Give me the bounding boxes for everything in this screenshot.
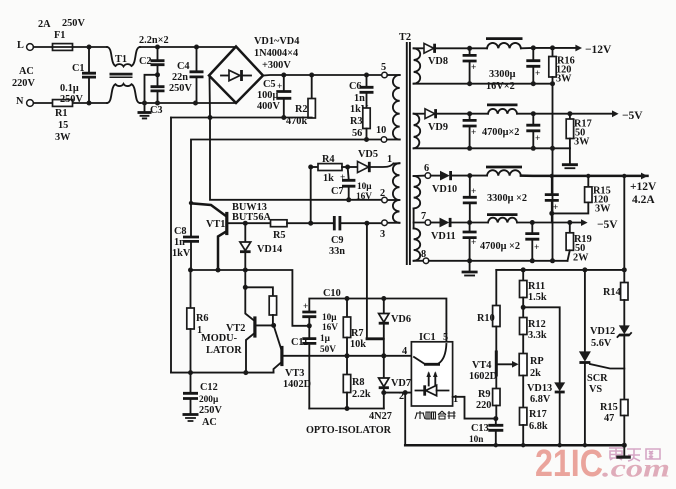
node R19 top: [567, 220, 572, 225]
svg-text:56: 56: [352, 128, 362, 139]
capacitor C9: [311, 222, 333, 224]
node ground stub on N rail: [142, 101, 147, 106]
svg-text:4N27: 4N27: [369, 411, 392, 422]
opto phototransistor: [424, 363, 440, 366]
node R17a top: [567, 111, 572, 116]
svg-text:250V: 250V: [62, 18, 85, 29]
node C9 right / down wire: [364, 221, 369, 226]
svg-text:AC: AC: [19, 66, 34, 77]
wire pin2: [384, 392, 412, 394]
capacitor Cd1: [469, 223, 471, 232]
svg-text:220: 220: [476, 400, 491, 411]
svg-text:VD7: VD7: [391, 378, 411, 389]
resistor R7: [346, 299, 348, 318]
svg-text:R12: R12: [528, 319, 546, 330]
arrow -5Vb: [581, 219, 588, 226]
resistor R1: [53, 100, 73, 107]
transistor VT1 BUW13/BUT56A: [191, 203, 226, 216]
transistor VT4 1602D: [495, 352, 498, 375]
svg-text:15: 15: [58, 120, 68, 131]
svg-text:C12: C12: [200, 382, 218, 393]
resistor R16: [552, 48, 554, 57]
svg-text:+: +: [535, 134, 540, 144]
svg-text:220V: 220V: [12, 78, 35, 89]
node -12V cap2: [531, 45, 536, 50]
svg-text:VT4: VT4: [472, 360, 491, 371]
wire control bottom rail: [405, 444, 624, 447]
svg-text:RP: RP: [530, 356, 544, 367]
svg-text:16V×2: 16V×2: [486, 81, 515, 92]
svg-text:T2: T2: [399, 32, 411, 43]
wire bridge negative down to pin2 line: [210, 77, 382, 200]
svg-text:8: 8: [421, 249, 426, 260]
ground input filter: [138, 111, 152, 114]
resistor R5: [271, 220, 288, 227]
transformer T1 core: [110, 73, 133, 76]
svg-text:3300μ: 3300μ: [489, 69, 516, 80]
inductor L3: [487, 170, 521, 175]
wire -12V line to choke: [470, 47, 487, 49]
svg-text:1μ: 1μ: [320, 334, 331, 344]
svg-text:BUT56A: BUT56A: [232, 212, 271, 223]
ground C12: [183, 413, 199, 416]
inductor L2 core bar: [487, 104, 518, 107]
svg-text:C3: C3: [150, 105, 163, 116]
svg-text:VD6: VD6: [391, 314, 411, 325]
capacitor C5: [283, 75, 285, 91]
transformer T2 core: [407, 43, 410, 264]
node VT1 collector: [189, 201, 193, 205]
bridge rectifier VD1-VD4: [209, 47, 263, 104]
resistor R15 (47): [621, 400, 628, 416]
svg-text:MODU-: MODU-: [201, 333, 238, 344]
svg-text:2.2n×2: 2.2n×2: [139, 35, 169, 46]
svg-text:4.2A: 4.2A: [632, 194, 655, 206]
node C12 top: [188, 370, 193, 375]
wire C9 node down to VD6/VD7: [366, 223, 368, 339]
wire pin1 to R9 bottom: [453, 397, 496, 419]
terminal pin 3: [387, 222, 399, 224]
node VT1 emitter rail: [216, 268, 221, 273]
svg-text:VT1: VT1: [206, 219, 225, 230]
svg-text:2: 2: [399, 391, 404, 402]
node C3 bottom: [155, 101, 160, 106]
svg-text:+: +: [471, 187, 476, 197]
T2 secondary winding C: [414, 176, 421, 208]
svg-text:VD12: VD12: [590, 326, 615, 337]
wire R11 node to VD13 column: [523, 307, 560, 382]
svg-text:4700μ×2: 4700μ×2: [482, 127, 519, 138]
node C10/C11: [307, 323, 312, 328]
svg-text:R1: R1: [55, 108, 68, 119]
node R16 top: [550, 45, 555, 50]
resistor R14: [621, 283, 628, 301]
node VT2 emitter rail: [243, 370, 248, 375]
node -5Va cap1: [467, 111, 472, 116]
svg-text:VD11: VD11: [431, 231, 456, 242]
svg-text:AC: AC: [202, 417, 217, 428]
svg-text:LATOR: LATOR: [206, 345, 242, 356]
resistor R4: [311, 166, 318, 168]
node VT2 collector top: [243, 285, 248, 290]
T2 secondary winding A: [414, 48, 421, 83]
terminal L: [27, 44, 34, 51]
resistor R3: [363, 108, 370, 129]
transformer T1 top winding: [107, 47, 140, 66]
node R11/R12: [521, 305, 526, 310]
svg-text:6.8k: 6.8k: [529, 421, 548, 432]
resistor R2: [311, 75, 313, 99]
svg-text:C6: C6: [349, 81, 362, 92]
node C2-C3 midpoint: [155, 72, 160, 77]
terminal N: [27, 100, 34, 107]
wire long left vertical: [170, 118, 172, 373]
inductor L3 core bar: [486, 166, 522, 169]
inductor L1: [487, 43, 521, 48]
diode VD14: [244, 223, 246, 242]
terminal pin 2: [387, 199, 399, 201]
svg-text:R8: R8: [352, 377, 365, 388]
svg-text:47: 47: [604, 413, 614, 424]
capacitor C2: [157, 47, 159, 60]
svg-text:T1: T1: [115, 54, 127, 65]
svg-text:C1: C1: [72, 63, 85, 74]
node neg-bridge vertical: [208, 115, 213, 120]
wire R16 column down: [552, 84, 554, 261]
node R7/R8 base wire: [345, 353, 350, 358]
diode VD5: [348, 166, 358, 168]
node R3 bottom: [364, 137, 369, 142]
svg-text:R15: R15: [600, 402, 618, 413]
svg-text:10μ: 10μ: [322, 313, 337, 323]
svg-text:21IC: 21IC: [535, 443, 603, 485]
T2 secondary winding D: [414, 228, 421, 260]
capacitor C12: [190, 373, 192, 393]
node X R4/R5/C9: [308, 221, 313, 226]
fuse F1: [53, 44, 73, 51]
svg-text:R3: R3: [350, 116, 363, 127]
svg-text:3300μ ×2: 3300μ ×2: [487, 193, 527, 204]
wire -12V return: [470, 83, 553, 85]
terminal pin 6: [425, 173, 431, 179]
wire +300V rail to T2 pin5: [263, 74, 382, 77]
node R4/VD5/C7: [345, 165, 350, 170]
terminal pin 7: [425, 220, 431, 226]
svg-text:R10: R10: [477, 313, 495, 324]
svg-text:VD10: VD10: [432, 184, 457, 195]
resistor (unlabeled collector load): [269, 296, 276, 315]
svg-text:C7: C7: [331, 186, 344, 197]
node top junction C1: [87, 45, 92, 50]
svg-text:3.3k: 3.3k: [528, 330, 547, 341]
capacitor C3: [157, 75, 159, 86]
svg-text:R5: R5: [273, 230, 286, 241]
arrow -12V: [575, 45, 582, 52]
svg-text:22n: 22n: [172, 72, 188, 83]
svg-text:2.2k: 2.2k: [352, 389, 371, 400]
diode VD10: [431, 175, 440, 177]
node R2 top: [309, 73, 314, 78]
svg-text:50V: 50V: [320, 345, 336, 355]
svg-text:3W: 3W: [595, 204, 611, 215]
node -5Va cap2: [531, 111, 536, 116]
svg-text:R7: R7: [351, 328, 364, 339]
transistor VT3 1402D: [274, 325, 281, 348]
svg-text:1: 1: [387, 154, 392, 165]
arrow +12V: [641, 173, 648, 180]
resistor R12: [522, 307, 524, 317]
svg-text:+12V: +12V: [630, 181, 657, 193]
svg-text:R17: R17: [529, 409, 547, 420]
svg-text:+: +: [534, 243, 539, 253]
wire node X vertical: [310, 167, 312, 223]
node VD14 top: [243, 221, 248, 226]
wire T2 pin10 to VT1 collector: [191, 140, 381, 203]
node R9/C13: [493, 416, 498, 421]
svg-text:250V: 250V: [199, 405, 222, 416]
resistor R17 (6.8k): [520, 408, 527, 426]
svg-text:VD1~VD4: VD1~VD4: [254, 36, 299, 47]
capacitor Cc1: [469, 176, 471, 197]
terminal pin 8: [423, 258, 429, 264]
resistor R8: [346, 356, 348, 375]
potentiometer RP: [519, 354, 527, 376]
svg-text:−12V: −12V: [585, 44, 612, 56]
svg-text:2A: 2A: [38, 19, 51, 30]
svg-text:10μ: 10μ: [357, 182, 372, 192]
capacitor C7: [348, 167, 349, 179]
svg-text:5: 5: [381, 62, 386, 73]
capacitor Ca1: [469, 48, 471, 54]
svg-text:C10: C10: [323, 288, 341, 299]
svg-text:3: 3: [380, 229, 385, 240]
svg-text:4700μ ×2: 4700μ ×2: [480, 241, 520, 252]
svg-text:VD8: VD8: [428, 56, 448, 67]
opto LED: [423, 385, 426, 395]
svg-text:.com: .com: [602, 456, 670, 483]
T2 drive winding 1-2-3: [394, 162, 400, 164]
svg-text:R14: R14: [603, 287, 621, 298]
svg-text:0.1μ: 0.1μ: [60, 83, 79, 94]
svg-text:+: +: [471, 128, 476, 138]
capacitor C4: [196, 47, 198, 71]
svg-text:16V: 16V: [322, 323, 338, 333]
diode VD8: [424, 43, 434, 53]
thyristor SCR VS: [584, 270, 586, 352]
node VD6 top: [381, 296, 386, 301]
svg-text:10k: 10k: [350, 339, 366, 350]
inductor L4 core bar: [487, 213, 518, 216]
svg-text:2k: 2k: [530, 368, 541, 379]
ground control rail: [623, 445, 625, 455]
resistor R9: [493, 389, 500, 406]
svg-text:2: 2: [380, 188, 385, 199]
svg-text:1.5k: 1.5k: [528, 292, 547, 303]
wire +12V feedback drop: [623, 176, 625, 283]
wire bridge negative rail: [171, 117, 312, 119]
node -5Vb cap1: [467, 220, 472, 225]
wire to collector resistor: [245, 287, 273, 296]
nodes on return rail: [467, 146, 472, 151]
svg-text:1n: 1n: [354, 93, 365, 104]
wire feedback rail: [496, 269, 624, 271]
node VD7 pin2 wire: [381, 390, 386, 395]
wire N rail: [34, 102, 108, 104]
svg-text:C2: C2: [139, 56, 152, 67]
svg-text:N: N: [16, 96, 24, 107]
opto light arrows: [429, 374, 436, 386]
svg-text:+: +: [535, 69, 540, 79]
wire C10 top rail: [309, 299, 446, 342]
wire L to bridge top: [34, 46, 108, 48]
svg-text:VD5: VD5: [358, 149, 378, 160]
capacitor C6: [366, 75, 368, 86]
node C2 top: [155, 45, 160, 50]
capacitor Cd2: [531, 223, 533, 233]
resistor R11: [522, 270, 524, 281]
svg-text:+: +: [340, 173, 345, 183]
svg-text:VD13: VD13: [527, 383, 552, 394]
node VT2 base / VT3 collector: [271, 323, 276, 328]
node C4 bottom: [193, 101, 198, 106]
svg-text:SCR: SCR: [587, 373, 608, 384]
svg-text:C8: C8: [174, 226, 187, 237]
svg-text:5.6V: 5.6V: [591, 338, 612, 349]
SECTION: WATERMARK: [535, 443, 670, 485]
wire opto bottom rail: [309, 408, 384, 410]
svg-text:−5V: −5V: [622, 110, 643, 122]
svg-text:5: 5: [443, 332, 448, 343]
svg-text:6.8V: 6.8V: [530, 394, 551, 405]
svg-text:200μ: 200μ: [199, 395, 219, 405]
svg-text:+: +: [303, 302, 308, 312]
node VD6/VD7 base wire: [381, 353, 386, 358]
svg-text:3W: 3W: [556, 74, 572, 85]
resistor R10: [495, 270, 497, 306]
svg-text:VS: VS: [589, 384, 602, 395]
svg-text:IC1: IC1: [419, 332, 436, 343]
svg-text:C5: C5: [263, 79, 276, 90]
svg-text:3W: 3W: [574, 137, 590, 148]
svg-text:1402D: 1402D: [283, 379, 311, 390]
svg-text:4: 4: [402, 346, 407, 357]
wire midpoint to ground: [145, 75, 158, 112]
svg-text:100μ: 100μ: [257, 90, 278, 101]
svg-text:250V: 250V: [60, 94, 83, 105]
node R7 top: [345, 296, 350, 301]
svg-text:16V: 16V: [356, 192, 372, 202]
svg-text:−5V: −5V: [597, 219, 618, 231]
svg-text:7: 7: [421, 211, 426, 222]
resistor R17 (50 3W): [569, 114, 571, 119]
terminal pin 10: [381, 137, 387, 143]
svg-text:L: L: [17, 40, 24, 51]
node C7 bottom: [346, 197, 351, 202]
svg-text:2W: 2W: [573, 253, 589, 264]
node neg-C5: [281, 115, 286, 120]
svg-text:3W: 3W: [55, 132, 71, 143]
svg-text:C4: C4: [177, 61, 190, 72]
svg-text:+: +: [471, 238, 476, 248]
svg-text:VD9: VD9: [428, 122, 448, 133]
arrow -5Va: [612, 110, 619, 117]
node C4 top: [194, 45, 199, 50]
label opto chinese: [415, 411, 456, 419]
ground secondary bottom: [469, 261, 471, 271]
svg-text:R6: R6: [196, 313, 209, 324]
diode VD6: [383, 299, 385, 314]
svg-text:VD14: VD14: [257, 244, 282, 255]
diode VD12 zener: [619, 325, 630, 334]
diode VD13: [554, 382, 565, 391]
node +12V feedback drop: [622, 174, 626, 178]
svg-text:400V: 400V: [257, 101, 280, 112]
wire bottom primary rail: [171, 372, 274, 374]
terminal pin 5: [382, 72, 388, 78]
svg-text:R11: R11: [528, 281, 545, 292]
svg-text:1602D: 1602D: [469, 371, 497, 382]
resistor R6: [190, 270, 192, 308]
transistor VT2: [245, 287, 254, 320]
capacitor C8: [190, 203, 192, 236]
svg-text:1kV: 1kV: [172, 248, 191, 259]
svg-text:VT3: VT3: [285, 368, 304, 379]
svg-text:+300V: +300V: [262, 60, 291, 71]
node R15 top: [586, 174, 590, 178]
diode VD7: [379, 378, 389, 387]
svg-text:6: 6: [424, 163, 429, 174]
node bottom junction C1: [87, 101, 92, 106]
inductor L1 core bar: [486, 37, 523, 40]
svg-text:C9: C9: [331, 235, 344, 246]
svg-text:R9: R9: [478, 389, 491, 400]
inductor L4: [488, 218, 517, 223]
node R8 bottom: [345, 406, 350, 411]
capacitor C11: [308, 326, 310, 338]
svg-text:+: +: [471, 63, 476, 73]
capacitor Cb1: [469, 114, 471, 120]
node C5 top: [281, 73, 286, 78]
svg-text:1n: 1n: [174, 237, 185, 248]
svg-text:1k: 1k: [323, 173, 334, 184]
capacitor Cc2: [551, 176, 553, 194]
svg-text:C11: C11: [291, 337, 308, 348]
inductor L2: [488, 109, 517, 114]
diode VD9: [425, 109, 435, 119]
svg-text:33n: 33n: [329, 246, 345, 257]
node +12V cap2: [550, 174, 554, 178]
svg-text:R2: R2: [295, 104, 308, 115]
resistor R15 (120 3W): [587, 176, 589, 187]
svg-text:C13: C13: [471, 423, 489, 434]
node C6 top: [364, 73, 369, 78]
wire VT1 emitter rail: [191, 270, 310, 326]
capacitor C13: [495, 419, 497, 425]
node C8 bottom / R6 top: [188, 268, 193, 273]
svg-text:OPTO-ISOLATOR: OPTO-ISOLATOR: [306, 425, 392, 436]
capacitor C10: [302, 312, 316, 317]
capacitor Cb2: [532, 114, 534, 125]
diode VD11: [431, 222, 440, 224]
node pin2 drop: [403, 390, 408, 395]
node Cc2 bottom: [549, 211, 554, 216]
svg-text:1: 1: [453, 394, 458, 405]
svg-text:250V: 250V: [169, 83, 192, 94]
resistor R19: [569, 223, 571, 233]
node -5Vb cap2: [530, 220, 535, 225]
svg-text:F1: F1: [54, 30, 65, 41]
svg-text:10n: 10n: [469, 435, 484, 445]
